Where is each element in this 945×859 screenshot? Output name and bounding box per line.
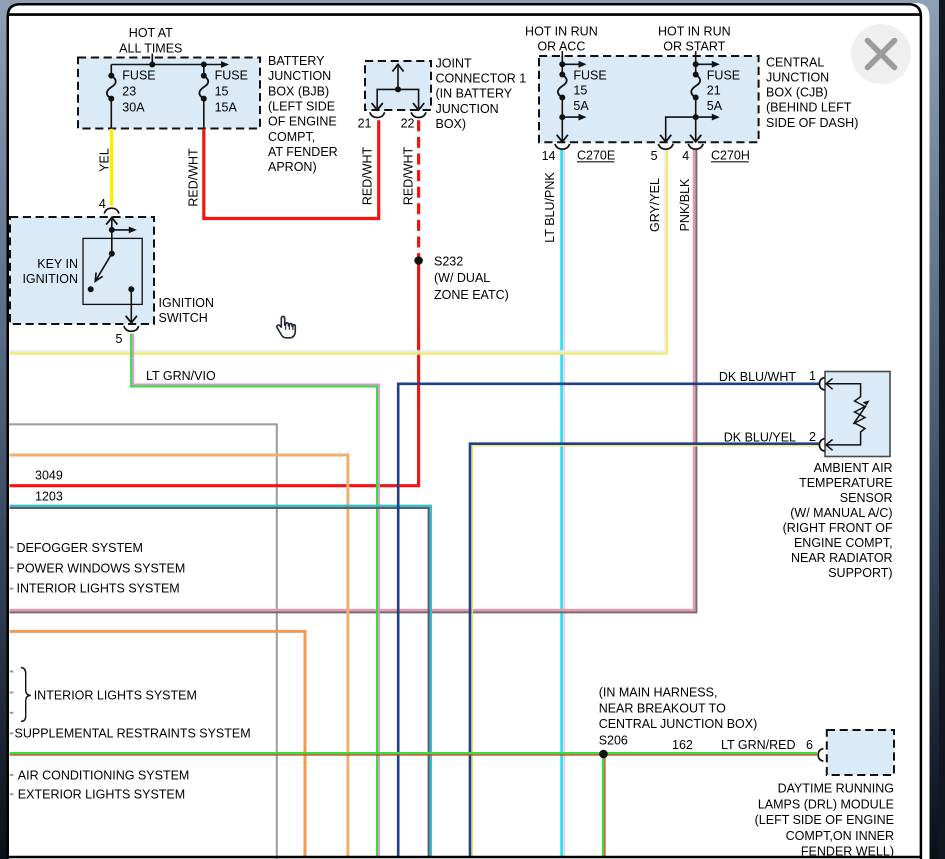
svg-text:162: 162 bbox=[672, 738, 693, 752]
svg-text:C270E: C270E bbox=[577, 149, 615, 163]
svg-text:5A: 5A bbox=[707, 99, 723, 113]
svg-text:GRY/YEL: GRY/YEL bbox=[648, 178, 662, 232]
svg-text:SUPPORT): SUPPORT) bbox=[828, 566, 892, 580]
svg-text:14: 14 bbox=[542, 149, 556, 163]
svg-text:(W/ MANUAL A/C): (W/ MANUAL A/C) bbox=[790, 506, 892, 520]
svg-text:ZONE EATC): ZONE EATC) bbox=[434, 288, 509, 302]
svg-text:(BEHIND LEFT: (BEHIND LEFT bbox=[766, 101, 852, 115]
svg-text:3049: 3049 bbox=[35, 469, 63, 483]
svg-text:1203: 1203 bbox=[35, 490, 63, 504]
svg-text:RED/WHT: RED/WHT bbox=[186, 148, 200, 207]
svg-text:ENGINE COMPT,: ENGINE COMPT, bbox=[794, 536, 893, 550]
svg-text:HOT IN RUN: HOT IN RUN bbox=[658, 25, 731, 39]
svg-text:JUNCTION: JUNCTION bbox=[268, 69, 331, 83]
svg-text:AMBIENT AIR: AMBIENT AIR bbox=[814, 461, 893, 475]
svg-text:4: 4 bbox=[99, 197, 106, 211]
svg-text:FUSE: FUSE bbox=[215, 69, 248, 83]
svg-text:FUSE: FUSE bbox=[122, 69, 155, 83]
svg-text:15: 15 bbox=[215, 85, 229, 99]
svg-text:INTERIOR LIGHTS SYSTEM: INTERIOR LIGHTS SYSTEM bbox=[34, 689, 197, 703]
svg-text:(W/ DUAL: (W/ DUAL bbox=[434, 271, 490, 285]
svg-text:LT BLU/PNK: LT BLU/PNK bbox=[543, 172, 557, 243]
svg-text:2: 2 bbox=[809, 430, 816, 444]
svg-text:JUNCTION: JUNCTION bbox=[436, 102, 499, 116]
svg-text:IGNITION: IGNITION bbox=[159, 296, 215, 310]
svg-text:CONNECTOR 1: CONNECTOR 1 bbox=[436, 72, 527, 86]
svg-text:DK BLU/WHT: DK BLU/WHT bbox=[719, 370, 796, 384]
svg-text:RED/WHT: RED/WHT bbox=[361, 146, 375, 205]
svg-text:SENSOR: SENSOR bbox=[840, 491, 893, 505]
svg-text:TEMPERATURE: TEMPERATURE bbox=[799, 476, 893, 490]
svg-text:OF ENGINE: OF ENGINE bbox=[268, 115, 337, 129]
svg-text:POWER WINDOWS SYSTEM: POWER WINDOWS SYSTEM bbox=[17, 561, 186, 575]
svg-text:6: 6 bbox=[806, 738, 813, 752]
svg-text:IGNITION: IGNITION bbox=[22, 272, 78, 286]
svg-text:LT GRN/RED: LT GRN/RED bbox=[721, 738, 796, 752]
svg-text:DAYTIME RUNNING: DAYTIME RUNNING bbox=[778, 782, 894, 796]
svg-text:COMPT,: COMPT, bbox=[268, 130, 315, 144]
svg-text:(LEFT SIDE OF ENGINE: (LEFT SIDE OF ENGINE bbox=[755, 813, 894, 827]
svg-text:21: 21 bbox=[358, 117, 372, 131]
svg-text:FUSE: FUSE bbox=[707, 69, 740, 83]
svg-text:4: 4 bbox=[682, 149, 689, 163]
svg-text:SWITCH: SWITCH bbox=[159, 311, 208, 325]
svg-text:JUNCTION: JUNCTION bbox=[766, 71, 829, 85]
svg-text:RED/WHT: RED/WHT bbox=[401, 146, 415, 205]
svg-text:AT FENDER: AT FENDER bbox=[268, 145, 338, 159]
svg-text:LAMPS (DRL) MODULE: LAMPS (DRL) MODULE bbox=[758, 797, 894, 811]
svg-text:HOT IN RUN: HOT IN RUN bbox=[525, 25, 598, 39]
svg-text:21: 21 bbox=[707, 84, 721, 98]
svg-text:S206: S206 bbox=[599, 734, 628, 748]
svg-text:(LEFT SIDE: (LEFT SIDE bbox=[268, 100, 335, 114]
svg-text:PNK/BLK: PNK/BLK bbox=[678, 178, 692, 231]
svg-text:NEAR BREAKOUT TO: NEAR BREAKOUT TO bbox=[599, 701, 726, 715]
svg-text:15: 15 bbox=[573, 84, 587, 98]
svg-text:(IN MAIN HARNESS,: (IN MAIN HARNESS, bbox=[599, 686, 718, 700]
svg-text:ALL TIMES: ALL TIMES bbox=[119, 41, 182, 55]
svg-text:NEAR RADIATOR: NEAR RADIATOR bbox=[791, 551, 893, 565]
svg-text:30A: 30A bbox=[122, 101, 145, 115]
svg-text:YEL: YEL bbox=[97, 148, 111, 172]
svg-text:JOINT: JOINT bbox=[436, 57, 472, 71]
svg-text:EXTERIOR LIGHTS SYSTEM: EXTERIOR LIGHTS SYSTEM bbox=[18, 788, 185, 802]
svg-text:FUSE: FUSE bbox=[573, 69, 606, 83]
svg-text:BATTERY: BATTERY bbox=[268, 54, 325, 68]
svg-text:5: 5 bbox=[651, 149, 658, 163]
svg-text:1: 1 bbox=[809, 369, 816, 383]
svg-text:SUPPLEMENTAL RESTRAINTS SYSTEM: SUPPLEMENTAL RESTRAINTS SYSTEM bbox=[15, 727, 251, 741]
svg-text:(RIGHT FRONT OF: (RIGHT FRONT OF bbox=[783, 521, 893, 535]
svg-text:S232: S232 bbox=[434, 254, 463, 268]
svg-text:LT GRN/VIO: LT GRN/VIO bbox=[146, 369, 216, 383]
svg-text:OR START: OR START bbox=[663, 40, 725, 54]
svg-text:BOX (BJB): BOX (BJB) bbox=[268, 84, 329, 98]
svg-text:15A: 15A bbox=[215, 101, 238, 115]
svg-text:INTERIOR LIGHTS SYSTEM: INTERIOR LIGHTS SYSTEM bbox=[17, 582, 180, 596]
svg-text:COMPT,ON INNER: COMPT,ON INNER bbox=[786, 829, 894, 843]
svg-text:CENTRAL JUNCTION BOX): CENTRAL JUNCTION BOX) bbox=[599, 717, 758, 731]
svg-text:23: 23 bbox=[122, 85, 136, 99]
svg-text:BOX): BOX) bbox=[436, 117, 467, 131]
svg-text:DK BLU/YEL: DK BLU/YEL bbox=[724, 431, 796, 445]
svg-text:OR ACC: OR ACC bbox=[537, 40, 585, 54]
svg-text:BOX (CJB): BOX (CJB) bbox=[766, 86, 828, 100]
svg-text:AIR CONDITIONING SYSTEM: AIR CONDITIONING SYSTEM bbox=[18, 768, 190, 782]
svg-text:22: 22 bbox=[401, 117, 415, 131]
svg-text:KEY IN: KEY IN bbox=[37, 257, 78, 271]
svg-text:SIDE OF DASH): SIDE OF DASH) bbox=[766, 116, 858, 130]
svg-text:CENTRAL: CENTRAL bbox=[766, 55, 824, 69]
svg-text:(IN BATTERY: (IN BATTERY bbox=[436, 87, 513, 101]
svg-text:C270H: C270H bbox=[711, 149, 750, 163]
svg-text:5A: 5A bbox=[573, 99, 589, 113]
svg-text:5: 5 bbox=[116, 332, 123, 346]
svg-text:APRON): APRON) bbox=[268, 160, 317, 174]
svg-text:HOT AT: HOT AT bbox=[129, 26, 173, 40]
svg-text:DEFOGGER SYSTEM: DEFOGGER SYSTEM bbox=[17, 541, 143, 555]
